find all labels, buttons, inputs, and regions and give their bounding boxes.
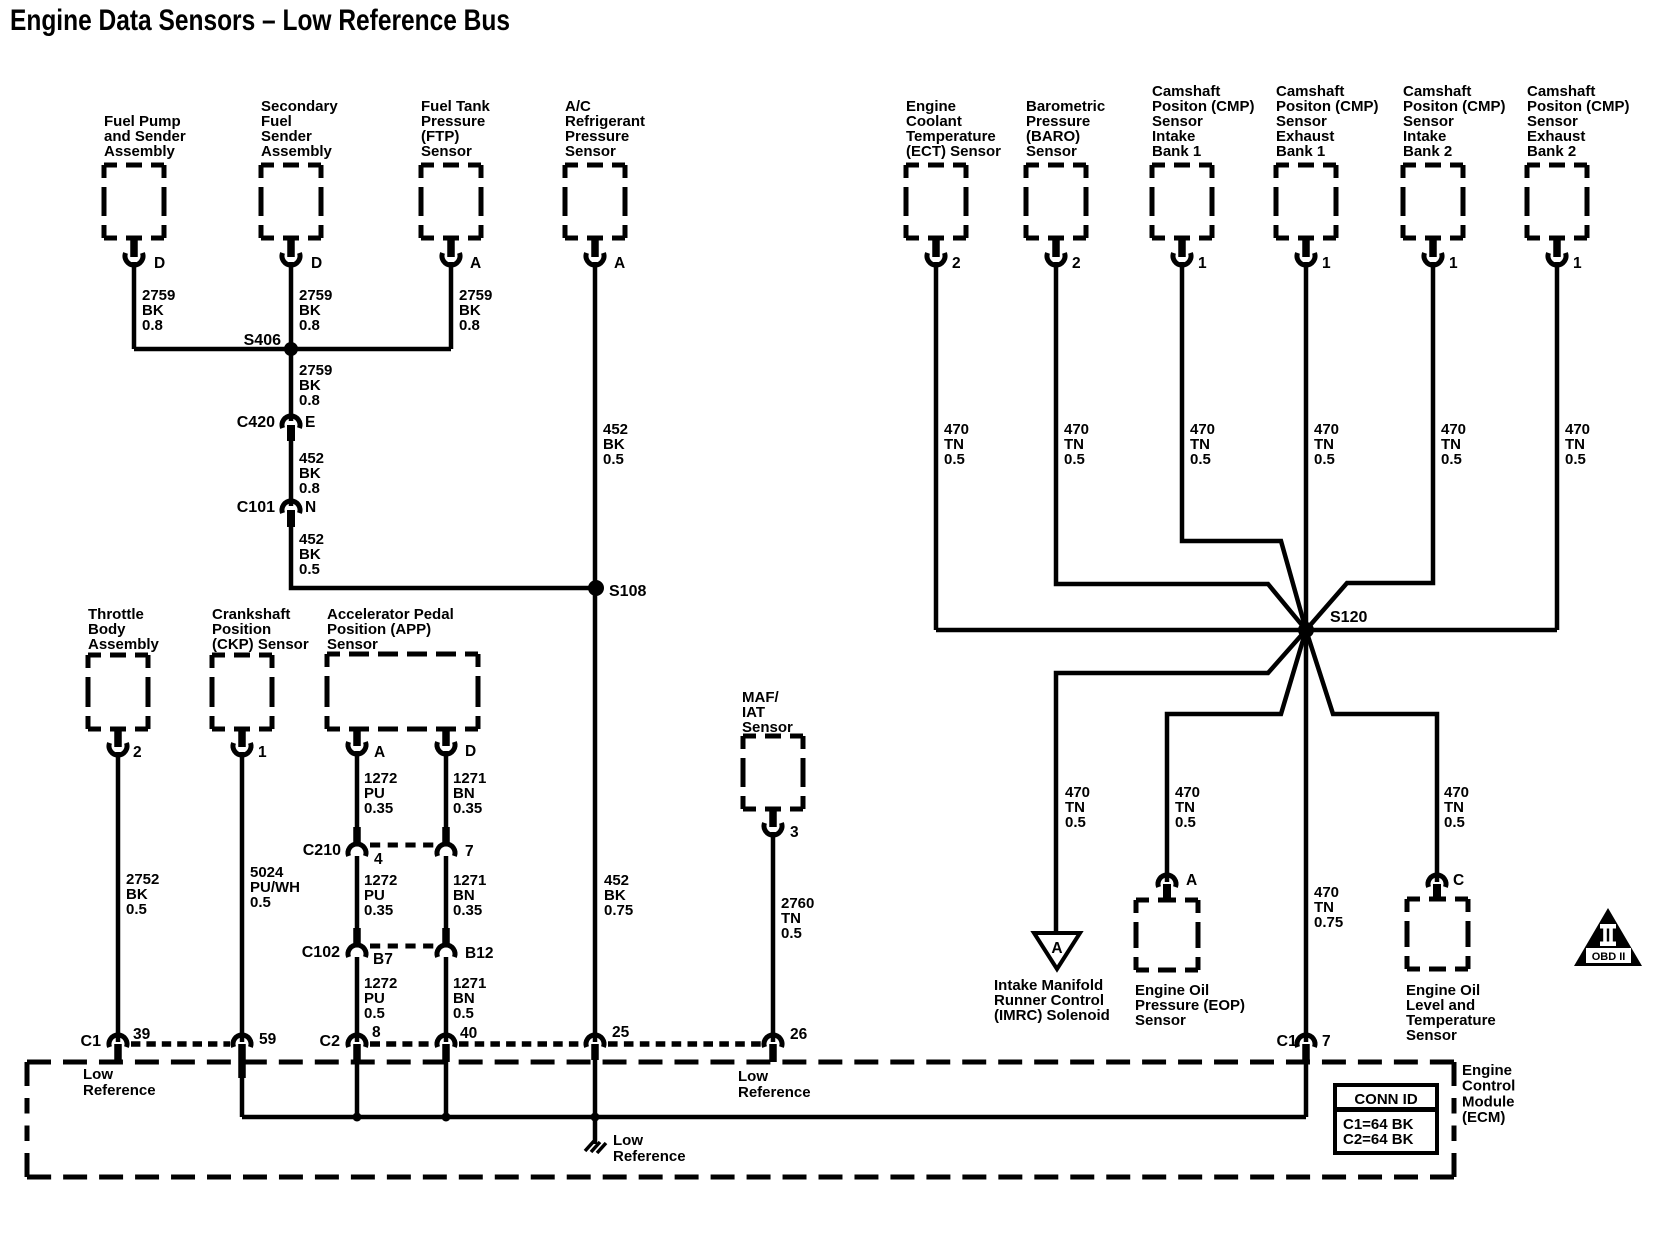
wire 470 TN 0.5 (CMP exhaust bank 2 to S120) [1557,262,1590,630]
wire label 452 BK 0.75 (S108 to ECM pin 25) [604,872,633,919]
svg-text:Reference: Reference [613,1148,686,1165]
svg-text:Assembly: Assembly [104,143,176,160]
svg-text:(ECM): (ECM) [1462,1109,1505,1126]
svg-text:Bank 1: Bank 1 [1152,143,1201,160]
wire 1272 PU 0.35 (C210 to C102 pin B7) [357,856,397,929]
svg-text:C101: C101 [237,499,275,516]
ECM connector row dashed link pins 40-25 [459,1041,583,1047]
wire 1271 BN 0.35 (APP D to C210 pin 7) [446,751,486,830]
wire 1272 PU 0.35 (APP A to C210 pin 4) [357,751,397,830]
wire 470 TN 0.5 (CMP intake bank 2 to S120) [1306,262,1466,630]
svg-text:0.5: 0.5 [1064,451,1085,468]
component box: Fuel Tank Pressure (FTP) Sensor [421,98,491,238]
svg-text:0.35: 0.35 [364,902,393,919]
wire 1271 BN 0.5 (C102 to ECM pin 40) [446,957,486,1042]
connector pin 1 of Camshaft Position (CMP) Sensor Intake Bank 2 [1424,239,1458,272]
connector pin 1 of CKP sensor [233,729,267,761]
svg-text:Sensor: Sensor [327,636,378,653]
svg-text:0.5: 0.5 [1444,814,1465,831]
component box: Throttle Body Assembly [88,606,160,729]
svg-text:4: 4 [374,851,383,868]
svg-text:0.5: 0.5 [250,894,271,911]
connector C101 pin N [237,499,316,527]
svg-text:D: D [154,255,165,272]
connector pin D of Fuel Pump and Sender Assembly [125,239,165,272]
connector C102 dashed link [370,944,435,949]
svg-text:1: 1 [258,744,267,761]
label Low Reference at ECM pin 26 [738,1068,811,1101]
svg-text:0.5: 0.5 [1565,451,1586,468]
svg-text:Reference: Reference [83,1082,156,1099]
svg-text:0.8: 0.8 [142,317,163,334]
connector pin 3 of MAF/IAT sensor [764,809,799,841]
wire label 470 TN 0.75 (S120 to ECM pin 7) [1314,884,1343,931]
wire 470 TN 0.5 (S120 to engine oil level and temperature sensor) [1306,630,1469,882]
wire 470 TN 0.5 (S120 to IMRC solenoid) [1056,630,1306,933]
connector pin 1 of Camshaft Position (CMP) Sensor Exhaust Bank 1 [1297,239,1331,272]
svg-text:Assembly: Assembly [88,636,160,653]
svg-text:25: 25 [612,1024,630,1041]
svg-text:(IMRC) Solenoid: (IMRC) Solenoid [994,1007,1110,1024]
svg-text:A: A [1051,940,1062,957]
svg-text:CONN ID: CONN ID [1354,1091,1418,1108]
svg-text:C2=64 BK: C2=64 BK [1343,1131,1414,1148]
svg-text:Engine: Engine [1462,1062,1512,1079]
ECM internal wire from pin 40 to bus [444,1062,449,1117]
svg-text:D: D [311,255,322,272]
svg-text:2: 2 [133,744,142,761]
svg-text:0.5: 0.5 [944,451,965,468]
svg-text:7: 7 [465,843,474,860]
svg-text:2: 2 [1072,255,1081,272]
component box: Engine Coolant Temperature (ECT) Sensor [906,98,1001,238]
component box: Camshaft Position (CMP) Sensor Intake Bank 1 [1152,83,1255,238]
svg-text:0.5: 0.5 [603,451,624,468]
svg-text:D: D [465,743,476,760]
svg-text:0.8: 0.8 [459,317,480,334]
svg-text:Bank 1: Bank 1 [1276,143,1325,160]
svg-text:0.5: 0.5 [126,901,147,918]
splice S108 [588,580,646,600]
svg-text:A: A [374,744,385,761]
svg-text:A: A [470,255,481,272]
svg-text:3: 3 [790,824,799,841]
svg-text:Sensor: Sensor [421,143,472,160]
wire 5024 PU/WH 0.5 (CKP sensor to ECM pin 59) [242,752,300,1042]
connector pin 2 of Barometric Pressure (BARO) Sensor [1047,239,1081,272]
svg-text:N: N [305,499,316,516]
ECM internal wire from pin 8 to bus [355,1062,360,1117]
connector C420 pin E [237,414,316,441]
junction of pin 8 wire and bus [353,1113,362,1122]
junction of pin 25 wire and bus [591,1113,600,1122]
svg-text:Bank 2: Bank 2 [1527,143,1576,160]
wire 470 TN 0.5 (CMP exhaust bank 1 down through S120 to ECM pin 7) [1306,262,1339,1042]
svg-text:0.8: 0.8 [299,480,320,497]
label Low Reference at ECM pin 39 [83,1066,156,1099]
svg-text:1: 1 [1449,255,1458,272]
ground symbol: Low Reference [585,1132,686,1165]
ECM internal wire from pin 7 to bus [1304,1046,1309,1117]
solenoid symbol: Intake Manifold Runner Control (IMRC), terminal A [994,933,1110,1024]
component box: Barometric Pressure (BARO) Sensor [1026,98,1105,238]
ECM connector pin 39 (C1) [81,1026,151,1062]
svg-text:0.75: 0.75 [1314,914,1343,931]
svg-text:C102: C102 [302,944,340,961]
svg-text:Module: Module [1462,1093,1515,1110]
connector pin 1 of Camshaft Position (CMP) Sensor Exhaust Bank 2 [1548,239,1582,272]
svg-text:40: 40 [460,1025,477,1042]
svg-text:(CKP) Sensor: (CKP) Sensor [212,636,309,653]
connector pin A of APP sensor [348,728,385,761]
component box: Crankshaft Position (CKP) Sensor [212,606,309,729]
svg-text:0.35: 0.35 [453,800,482,817]
component box: Camshaft Position (CMP) Sensor Exhaust Bank 1 [1276,83,1379,238]
svg-text:B7: B7 [373,951,393,968]
svg-text:0.5: 0.5 [781,925,802,942]
wire 2759 BK 0.8 (secondary fuel sender to S406) [291,262,332,421]
ECM connector pin 7 (C1) [1277,1033,1331,1062]
svg-text:8: 8 [372,1024,381,1041]
svg-text:Reference: Reference [738,1084,811,1101]
title [10,4,510,37]
svg-text:0.5: 0.5 [1065,814,1086,831]
svg-text:26: 26 [790,1026,808,1043]
svg-text:0.5: 0.5 [453,1005,474,1022]
connector pin 2 of Engine Coolant Temperature (ECT) Sensor [927,239,961,272]
svg-text:C: C [1453,872,1464,889]
svg-text:Control: Control [1462,1078,1515,1095]
wire 2759 BK 0.8 (fuel pump to S406) [134,262,175,349]
wire 470 TN 0.5 (CMP intake bank 1 to S120) [1182,262,1306,630]
wire 470 TN 0.5 (ECT sensor to S120) [936,262,969,630]
svg-text:Engine Data Sensors – Low Refe: Engine Data Sensors – Low Reference Bus [10,4,510,37]
component box: A/C Refrigerant Pressure Sensor [565,98,645,238]
connector pin A of Fuel Tank Pressure (FTP) Sensor [442,239,481,272]
svg-text:Low: Low [613,1132,643,1149]
wire S406 horizontal bus [134,347,451,352]
connector pin C of engine oil level and temperature sensor [1428,872,1464,901]
ECM connector pin 25 [586,1024,630,1060]
wire S120 horizontal bus [936,628,1557,633]
ECM connector row dashed link pins 25-26 [608,1041,761,1047]
component box: Camshaft Position (CMP) Sensor Exhaust Bank 2 [1527,83,1630,238]
svg-text:0.5: 0.5 [299,561,320,578]
wire 2752 BK 0.5 (throttle body to ECM pin 39) [118,752,159,1042]
CONN ID table [1335,1085,1437,1153]
connector pin 1 of Camshaft Position (CMP) Sensor Intake Bank 1 [1173,239,1207,272]
svg-text:0.5: 0.5 [1175,814,1196,831]
svg-text:0.5: 0.5 [1314,451,1335,468]
svg-text:0.8: 0.8 [299,317,320,334]
splice S120 [1298,609,1367,638]
ECM internal wire from pin 25 to ground [593,1060,598,1144]
wire 2759 BK 0.8 (S406 to C420) [299,362,332,409]
svg-text:Sensor: Sensor [742,719,793,736]
component box: MAF/IAT Sensor [742,689,803,809]
svg-text:A: A [614,255,625,272]
component box: Secondary Fuel Sender Assembly [261,98,338,238]
OBD II marker symbol [1574,908,1642,966]
svg-text:S120: S120 [1330,609,1367,626]
connector C210 pin 7 [437,827,474,860]
connector pin A of A/C Refrigerant Pressure Sensor [586,239,625,272]
connector C102 pin B7 [302,928,393,968]
connector pin D of Secondary Fuel Sender Assembly [282,239,322,272]
svg-text:S108: S108 [609,583,646,600]
junction of pin 40 wire and bus [442,1113,451,1122]
wire 2760 TN 0.5 (MAF/IAT to ECM pin 26) [773,832,814,1042]
ECM module dashed box: Engine Control Module [27,1062,1515,1177]
svg-text:Assembly: Assembly [261,143,333,160]
svg-text:C1: C1 [1277,1033,1298,1050]
svg-text:Low: Low [738,1068,768,1085]
svg-text:Sensor: Sensor [1135,1012,1186,1029]
connector pin A of EOP sensor [1158,872,1197,901]
svg-text:Low: Low [83,1066,113,1083]
component box: Camshaft Position (CMP) Sensor Intake Bank 2 [1403,83,1506,238]
svg-text:1: 1 [1198,255,1207,272]
svg-text:0.35: 0.35 [453,902,482,919]
svg-text:0.75: 0.75 [604,902,633,919]
svg-text:0.5: 0.5 [1441,451,1462,468]
ECM connector pin 8 (C2) [320,1024,381,1062]
svg-text:C210: C210 [303,842,341,859]
svg-text:Bank 2: Bank 2 [1403,143,1452,160]
svg-text:Sensor: Sensor [1026,143,1077,160]
svg-text:OBD II: OBD II [1592,951,1626,963]
component box: Accelerator Pedal Position (APP) Sensor [327,606,478,729]
svg-text:39: 39 [133,1026,151,1043]
wire 2759 BK 0.8 (FTP sensor to S406) [451,262,492,349]
wire 452 BK 0.8 (C420 to C101) [291,441,324,506]
svg-text:0.35: 0.35 [364,800,393,817]
svg-text:C1: C1 [81,1033,102,1050]
connector pin 2 of throttle body assembly [109,729,142,761]
svg-text:Sensor: Sensor [565,143,616,160]
svg-text:1: 1 [1322,255,1331,272]
connector C210 pin 4 [303,827,383,868]
wire 1272 PU 0.5 (C102 to ECM pin 8) [357,957,397,1042]
svg-text:(ECT) Sensor: (ECT) Sensor [906,143,1001,160]
svg-text:0.5: 0.5 [1190,451,1211,468]
svg-text:7: 7 [1322,1033,1331,1050]
ECM connector pin 40 [437,1025,477,1062]
svg-text:B12: B12 [465,945,493,962]
svg-text:C2: C2 [320,1033,341,1050]
svg-text:0.8: 0.8 [299,392,320,409]
ECM connector row dashed link C2 pins 8-40 [370,1041,434,1047]
svg-text:Sensor: Sensor [1406,1027,1457,1044]
connector pin D of APP sensor [437,728,476,760]
component box: Engine Oil Pressure (EOP) Sensor [1135,900,1245,1029]
svg-text:2: 2 [952,255,961,272]
connector C210 dashed link [370,843,435,848]
wire 470 TN 0.5 (S120 to EOP sensor) [1167,630,1306,882]
ECM internal wire from pin 59 to low reference bus [240,1062,245,1117]
component box: Fuel Pump and Sender Assembly [104,113,186,238]
connector C102 pin B12 [437,928,493,962]
svg-text:59: 59 [259,1031,277,1048]
svg-text:0.5: 0.5 [364,1005,385,1022]
wire 452 BK 0.5 (C101 to S108) [291,527,594,588]
component box: Engine Oil Level and Temperature Sensor [1406,899,1496,1044]
ECM connector pin 26 [764,1026,808,1062]
ECM internal low reference bus [242,1115,1306,1120]
svg-text:1: 1 [1573,255,1582,272]
wire 470 TN 0.5 (BARO sensor to S120) [1056,262,1306,630]
wire 452 BK 0.5 (A/C refrigerant pressure sensor down through S108) [595,262,628,1042]
svg-text:S406: S406 [244,332,281,349]
splice S406 [244,332,298,356]
svg-text:C420: C420 [237,414,275,431]
ECM connector pin 59 [233,1031,277,1078]
svg-text:E: E [305,414,315,431]
wire 1271 BN 0.35 (C210 to C102 pin B12) [446,856,486,929]
svg-text:A: A [1186,872,1197,889]
ECM connector row dashed link C1 pins 39-59 [131,1041,230,1047]
